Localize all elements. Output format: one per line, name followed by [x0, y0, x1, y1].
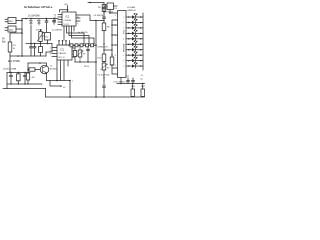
LED rows: [123, 13, 143, 67]
wire box down: [47, 40, 49, 44]
svg-text:4k7: 4k7: [32, 77, 36, 79]
wire reference to IC3: [104, 49, 112, 51]
LED LD2: [123, 19, 143, 24]
svg-text:R14: R14: [141, 86, 146, 88]
collect wire y62: [75, 61, 96, 63]
capacitor C2: [33, 44, 36, 53]
capacitor C13: [132, 78, 135, 84]
cap C8: [87, 47, 90, 62]
svg-text:10 11 13: 10 11 13: [58, 57, 65, 59]
svg-text:R8: R8: [107, 27, 110, 29]
svg-text:1: 1: [123, 33, 124, 35]
LED LD4: [123, 30, 143, 35]
ground rail left y88.5: [3, 88, 46, 90]
svg-text:LM3914C: LM3914C: [127, 10, 137, 12]
LED LD9: [123, 57, 143, 62]
vertical x96 to bottom: [95, 21, 97, 98]
svg-text:4x 10k/1%: 4x 10k/1%: [78, 32, 88, 34]
svg-text:1,2 LM358: 1,2 LM358: [52, 30, 63, 32]
svg-text:C12: C12: [126, 76, 131, 78]
ground rail right y97: [46, 96, 145, 98]
svg-text:4: 4: [115, 65, 116, 67]
wire mid horizontal y43.5: [26, 43, 52, 45]
resistor R8v: [102, 23, 106, 31]
wire chain: [68, 44, 96, 46]
capacitor C3: [53, 19, 56, 25]
cap near regulator: [103, 6, 106, 12]
resistor R11 on IC3 input: [110, 57, 114, 65]
diode D1: [30, 19, 33, 27]
node dot c: [46, 18, 48, 20]
svg-text:1: 1: [123, 55, 124, 57]
svg-text:1: 1: [123, 39, 124, 41]
svg-text:9V: 9V: [2, 39, 5, 41]
IC3 left rail: [112, 20, 118, 74]
wire BU1 to rail: [16, 20, 22, 22]
svg-text:9: 9: [50, 54, 52, 56]
resistor R9 top: [88, 2, 104, 4]
svg-text:13: 13: [63, 87, 66, 89]
resistor R4 to base: [29, 68, 35, 71]
svg-text:+U: +U: [141, 75, 144, 77]
svg-text:8: 8: [115, 55, 116, 57]
wire into R1: [10, 33, 22, 42]
svg-text:CA3162: CA3162: [59, 52, 67, 55]
box REL1: [45, 33, 51, 41]
svg-text:1: 1: [123, 28, 124, 30]
crystal Q1 box: [39, 47, 43, 53]
wire IC3 bottom down: [120, 78, 122, 84]
svg-text:1: 1: [123, 44, 124, 46]
IC1 left pins: [52, 48, 57, 57]
resistor R14: [141, 89, 145, 97]
node dot under R1: [17, 55, 19, 57]
LED LD5: [123, 35, 143, 40]
node dot b: [30, 18, 32, 20]
svg-text:LM385 2V5: LM385 2V5: [98, 47, 109, 49]
wire stub y86: [50, 81, 61, 87]
LED LD8: [123, 52, 143, 57]
svg-text:1: 1: [123, 50, 124, 52]
node dot BU1: [21, 20, 23, 22]
regulator 78L05 box: [107, 3, 114, 10]
svg-text:R10: R10: [98, 58, 103, 60]
capacitor C5: [103, 17, 106, 23]
resistor R10: [102, 54, 106, 62]
svg-text:P2: P2: [107, 68, 110, 70]
IC2 left pins: [58, 15, 62, 25]
svg-text:R1: R1: [13, 45, 16, 47]
connector BU1 box: [5, 19, 8, 21]
svg-text:CD4060: CD4060: [64, 20, 72, 22]
svg-text:R13: R13: [131, 86, 136, 88]
svg-text:1: 1: [123, 17, 124, 19]
IC1 top pins: [59, 41, 70, 46]
svg-text:Im Selbstbau: LM Volt u.: Im Selbstbau: LM Volt u.: [24, 6, 53, 9]
svg-text:R9: R9: [98, 7, 101, 9]
svg-text:7: 7: [72, 81, 74, 83]
bottom mid wire: [47, 80, 71, 82]
svg-text:BC548: BC548: [50, 69, 57, 71]
resistor chain y43.5: [70, 44, 73, 47]
right rail: [142, 13, 144, 70]
LED LD1: [123, 13, 143, 18]
svg-text:LD: LD: [141, 78, 144, 80]
cap C10b: [24, 73, 27, 85]
svg-text:IC3: IC3: [114, 8, 118, 10]
IC1 box: [57, 45, 72, 60]
cap C7: [10, 73, 13, 85]
resistor R2: [26, 73, 29, 80]
svg-text:LD1-A06: LD1-A06: [127, 6, 136, 9]
bottom wire of sub: [7, 83, 42, 85]
IC2 right pins: [76, 18, 80, 21]
svg-text:4: 4: [50, 48, 52, 50]
resistor R13: [131, 89, 135, 97]
svg-text:R5 1k: R5 1k: [84, 66, 89, 68]
wire bottom right horizontal: [117, 83, 145, 85]
LED LD7: [123, 46, 143, 51]
left rail: [6, 73, 8, 89]
svg-text:P1: P1: [83, 54, 86, 56]
wire BU2 to rail: [16, 29, 22, 33]
svg-text:Bat: Bat: [2, 41, 6, 44]
connector BU2 box: [5, 28, 8, 30]
svg-text:T1: T1: [50, 66, 53, 68]
resistor R1: [8, 42, 12, 52]
LED LD3: [123, 24, 143, 29]
IC3 box tall: [118, 11, 127, 78]
IC1 right pins to vertical: [72, 48, 75, 63]
resistor R11: [17, 74, 21, 81]
svg-text:1: 1: [123, 60, 124, 62]
IC2 right wire to x90: [76, 15, 104, 21]
trimmer P2: [103, 62, 105, 64]
capacitor C14: [45, 19, 48, 33]
transistor T1: [40, 65, 49, 74]
svg-text:6: 6: [115, 35, 116, 37]
node dots y43.5: [30, 43, 32, 45]
svg-text:2x 1N4148: 2x 1N4148: [28, 15, 40, 18]
svg-text:7: 7: [115, 45, 116, 47]
node dot x22 y33: [21, 32, 23, 34]
cap C9: [103, 80, 106, 97]
svg-text:3: 3: [115, 15, 116, 17]
node dot d: [53, 18, 55, 20]
wire diode D1 leg down x31: [30, 26, 32, 44]
LED LD6: [123, 41, 143, 46]
wire left vertical x22: [21, 19, 23, 34]
svg-text:1: 1: [123, 66, 124, 68]
svg-text:7 8 9 12: 7 8 9 12: [63, 24, 69, 26]
svg-text:1: 1: [123, 22, 124, 24]
resistor R6: [73, 51, 76, 57]
svg-text:9: 9: [77, 23, 78, 25]
LED LD10: [123, 62, 143, 67]
node dot a: [25, 18, 27, 20]
trimmer P1: [78, 50, 82, 57]
svg-text:5: 5: [115, 25, 116, 27]
svg-text:13: 13: [54, 22, 57, 24]
trimmer P3: [40, 30, 42, 32]
svg-text:1k: 1k: [13, 48, 15, 50]
IC2 box: [62, 12, 76, 26]
svg-text:C9 10µF/16V: C9 10µF/16V: [98, 75, 110, 77]
wire top horizontal: [22, 18, 58, 20]
IC2 bottom pins nested wires: [64, 26, 94, 44]
capacitor C12: [127, 78, 130, 84]
diode D2: [38, 19, 41, 26]
capacitor C1: [30, 44, 33, 53]
wire R1 down to y56 wire: [10, 52, 46, 56]
wire R1 bottom continues: [9, 56, 11, 73]
IC1 bottom pins: [57, 60, 68, 81]
ground rail step: [45, 89, 47, 98]
top wire: [7, 72, 30, 74]
wire under caps to y56: [31, 44, 52, 57]
wire x22 down: [21, 33, 23, 56]
svg-text:11: 11: [77, 17, 79, 19]
